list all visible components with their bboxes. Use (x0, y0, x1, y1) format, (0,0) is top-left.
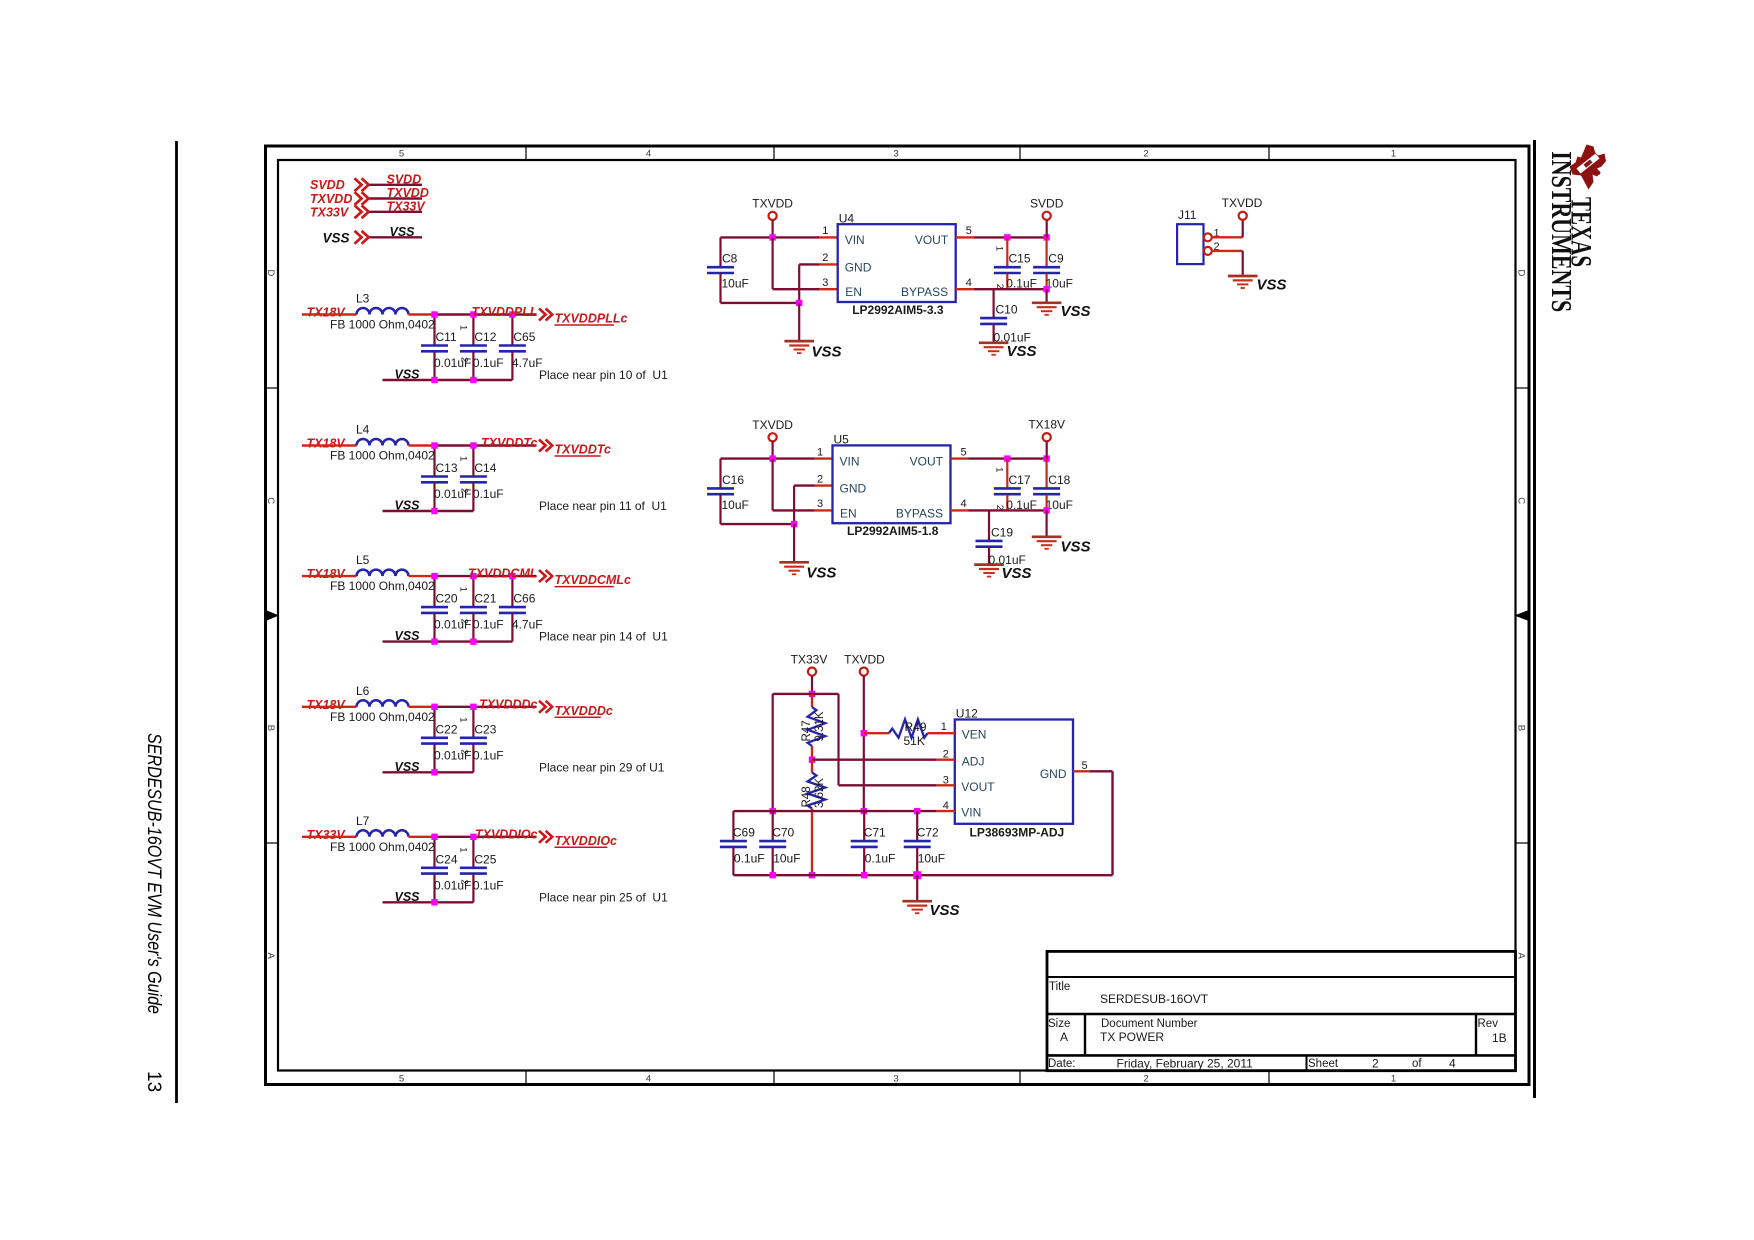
svg-text:2: 2 (459, 619, 470, 624)
svg-text:9.31K: 9.31K (814, 711, 826, 741)
svg-text:C25: C25 (474, 852, 496, 866)
svg-text:VSS: VSS (395, 890, 421, 904)
svg-text:SERDESUB-16OVT EVM User's Guid: SERDESUB-16OVT EVM User's Guide (143, 733, 164, 1014)
svg-text:U12: U12 (956, 707, 978, 721)
svg-text:D: D (265, 270, 276, 277)
svg-text:VOUT: VOUT (910, 454, 944, 468)
svg-text:VEN: VEN (962, 728, 987, 742)
svg-text:TXVDDCMLc: TXVDDCMLc (555, 573, 631, 587)
svg-text:13: 13 (143, 1071, 164, 1092)
svg-text:VSS: VSS (395, 629, 421, 643)
svg-text:4: 4 (1449, 1057, 1456, 1071)
svg-text:5: 5 (399, 149, 404, 160)
svg-text:TXVDDDc: TXVDDDc (555, 704, 613, 718)
svg-text:BYPASS: BYPASS (896, 506, 943, 520)
svg-text:VSS: VSS (323, 231, 350, 246)
svg-text:C23: C23 (474, 722, 496, 736)
svg-text:SVDD: SVDD (387, 172, 422, 186)
svg-text:2: 2 (459, 488, 470, 493)
svg-text:Friday, February 25, 2011: Friday, February 25, 2011 (1117, 1057, 1254, 1071)
svg-text:EN: EN (845, 285, 862, 299)
svg-text:2: 2 (459, 357, 470, 362)
svg-text:TXVDDTc: TXVDDTc (481, 436, 538, 450)
svg-text:3: 3 (817, 498, 823, 510)
svg-text:C71: C71 (864, 826, 886, 840)
svg-text:2: 2 (994, 505, 1005, 510)
svg-text:J11: J11 (1178, 208, 1197, 222)
svg-text:5: 5 (399, 1074, 404, 1085)
svg-text:0.1uF: 0.1uF (734, 852, 765, 866)
svg-text:2: 2 (1143, 149, 1148, 160)
svg-text:C9: C9 (1048, 252, 1064, 266)
svg-text:LP38693MP-ADJ: LP38693MP-ADJ (970, 826, 1065, 840)
svg-text:U5: U5 (834, 433, 850, 447)
svg-text:C24: C24 (436, 852, 458, 866)
svg-text:51K: 51K (904, 734, 925, 748)
svg-text:VSS: VSS (1002, 565, 1032, 582)
svg-text:TX33V: TX33V (387, 199, 427, 213)
svg-text:4: 4 (646, 1074, 651, 1085)
svg-text:1: 1 (458, 587, 469, 592)
svg-text:VSS: VSS (1007, 343, 1037, 360)
svg-text:TXVDD: TXVDD (310, 192, 352, 206)
svg-text:SERDESUB-16OVT: SERDESUB-16OVT (1100, 992, 1209, 1006)
svg-text:BYPASS: BYPASS (901, 285, 948, 299)
svg-text:Document Number: Document Number (1101, 1018, 1198, 1030)
svg-text:1: 1 (458, 456, 469, 461)
svg-text:GND: GND (845, 260, 872, 274)
svg-text:FB 1000 Ohm,0402: FB 1000 Ohm,0402 (330, 449, 435, 463)
svg-text:Title: Title (1049, 981, 1070, 993)
svg-text:FB 1000 Ohm,0402: FB 1000 Ohm,0402 (330, 579, 435, 593)
svg-text:LP2992AIM5-1.8: LP2992AIM5-1.8 (847, 524, 939, 538)
svg-text:1: 1 (993, 246, 1004, 251)
svg-text:C18: C18 (1048, 473, 1070, 487)
svg-text:VSS: VSS (930, 902, 960, 919)
svg-text:L6: L6 (356, 684, 370, 698)
svg-text:TX33V: TX33V (791, 653, 828, 667)
svg-text:C11: C11 (436, 330, 457, 344)
svg-text:R48: R48 (801, 786, 813, 807)
svg-text:TXVDDDc: TXVDDDc (479, 697, 537, 711)
svg-text:1: 1 (458, 717, 469, 722)
svg-text:C22: C22 (436, 722, 458, 736)
svg-text:TX33V: TX33V (310, 206, 350, 220)
svg-text:VSS: VSS (1257, 277, 1287, 294)
svg-text:TXVDDCML: TXVDDCML (468, 567, 537, 581)
svg-text:C21: C21 (474, 592, 496, 606)
svg-text:Place near pin 25 of U1: Place near pin 25 of U1 (539, 890, 668, 904)
svg-text:C16: C16 (722, 473, 744, 487)
svg-text:C72: C72 (917, 826, 939, 840)
svg-text:C13: C13 (436, 461, 458, 475)
svg-text:TXVDD: TXVDD (752, 418, 793, 432)
svg-text:B: B (265, 725, 276, 731)
svg-text:1: 1 (817, 446, 823, 458)
svg-text:C66: C66 (513, 592, 535, 606)
svg-text:C12: C12 (474, 330, 496, 344)
svg-text:R49: R49 (905, 720, 927, 734)
svg-text:4: 4 (966, 277, 972, 289)
svg-text:Place near pin 14 of U1: Place near pin 14 of U1 (539, 630, 668, 644)
svg-text:Date:: Date: (1048, 1058, 1076, 1070)
svg-text:R47: R47 (801, 720, 813, 741)
svg-text:ADJ: ADJ (962, 755, 985, 769)
svg-text:D: D (1516, 270, 1527, 277)
svg-text:TXVDD: TXVDD (844, 653, 885, 667)
svg-text:1: 1 (1391, 1074, 1396, 1085)
svg-text:FB 1000 Ohm,0402: FB 1000 Ohm,0402 (330, 840, 435, 854)
svg-text:C17: C17 (1009, 473, 1031, 487)
svg-text:TXVDDTc: TXVDDTc (555, 443, 612, 457)
svg-text:VSS: VSS (395, 499, 421, 513)
svg-text:B: B (1516, 725, 1527, 731)
svg-text:4: 4 (646, 149, 651, 160)
svg-text:Place near pin 29 of U1: Place near pin 29 of U1 (539, 760, 665, 774)
svg-text:L3: L3 (356, 292, 370, 306)
svg-text:C65: C65 (513, 330, 535, 344)
svg-text:0.1uF: 0.1uF (473, 487, 504, 501)
svg-text:0.1uF: 0.1uF (473, 356, 504, 370)
svg-text:1: 1 (458, 325, 469, 330)
svg-text:FB 1000 Ohm,0402: FB 1000 Ohm,0402 (330, 318, 435, 332)
svg-text:C14: C14 (474, 461, 496, 475)
svg-text:0.1uF: 0.1uF (865, 852, 896, 866)
svg-text:L4: L4 (356, 423, 370, 437)
svg-text:Size: Size (1048, 1018, 1070, 1030)
svg-text:A: A (1516, 953, 1527, 960)
svg-text:2: 2 (459, 749, 470, 754)
svg-text:GND: GND (840, 482, 867, 496)
svg-text:10uF: 10uF (722, 498, 749, 512)
svg-text:VSS: VSS (1061, 303, 1091, 320)
svg-text:2: 2 (994, 284, 1005, 289)
svg-text:TXVDDPLL: TXVDDPLL (472, 305, 538, 319)
svg-text:A: A (1060, 1030, 1068, 1044)
svg-text:C: C (265, 497, 276, 504)
svg-text:of: of (1412, 1058, 1422, 1070)
svg-text:C: C (1516, 497, 1527, 504)
svg-text:1B: 1B (1492, 1031, 1507, 1045)
svg-text:C20: C20 (436, 592, 458, 606)
svg-text:TXVDD: TXVDD (752, 196, 793, 210)
svg-text:VOUT: VOUT (915, 233, 949, 247)
svg-text:TX18V: TX18V (1028, 418, 1065, 432)
svg-text:INSTRUMENTS: INSTRUMENTS (1545, 151, 1576, 312)
svg-text:2: 2 (1372, 1057, 1379, 1071)
svg-text:VSS: VSS (395, 760, 421, 774)
svg-text:TXVDDIOc: TXVDDIOc (475, 827, 538, 841)
svg-text:10uF: 10uF (773, 852, 800, 866)
svg-text:4.7uF: 4.7uF (512, 356, 543, 370)
svg-text:4.7uF: 4.7uF (512, 618, 543, 632)
svg-text:VSS: VSS (1061, 539, 1091, 556)
svg-text:3: 3 (893, 1074, 898, 1085)
svg-text:SVDD: SVDD (310, 178, 345, 192)
svg-text:3: 3 (893, 149, 898, 160)
svg-text:C15: C15 (1009, 252, 1031, 266)
svg-text:VIN: VIN (961, 806, 981, 820)
svg-text:2: 2 (817, 473, 823, 485)
svg-text:VOUT: VOUT (961, 780, 995, 794)
svg-text:Sheet: Sheet (1308, 1058, 1339, 1070)
svg-text:VIN: VIN (845, 233, 865, 247)
svg-text:Rev: Rev (1478, 1018, 1499, 1030)
svg-text:A: A (265, 953, 276, 960)
svg-text:0.1uF: 0.1uF (473, 748, 504, 762)
svg-text:SVDD: SVDD (1030, 196, 1064, 210)
svg-text:4: 4 (961, 498, 967, 510)
svg-text:TXVDD: TXVDD (387, 186, 429, 200)
svg-text:Place near pin 11 of U1: Place near pin 11 of U1 (539, 499, 667, 513)
svg-text:1: 1 (1391, 149, 1396, 160)
svg-text:2: 2 (1143, 1074, 1148, 1085)
svg-text:C10: C10 (996, 303, 1018, 317)
svg-text:TX POWER: TX POWER (1100, 1030, 1164, 1044)
svg-text:0.1uF: 0.1uF (473, 618, 504, 632)
svg-text:1: 1 (458, 847, 469, 852)
svg-text:2: 2 (459, 879, 470, 884)
svg-text:5: 5 (966, 225, 972, 237)
svg-text:2: 2 (822, 252, 828, 264)
svg-text:C8: C8 (722, 252, 738, 266)
svg-text:TXVDD: TXVDD (1222, 196, 1263, 210)
svg-text:VSS: VSS (390, 225, 416, 239)
svg-text:10uF: 10uF (722, 277, 749, 291)
svg-text:U4: U4 (839, 211, 855, 225)
svg-text:L7: L7 (356, 814, 370, 828)
svg-text:VSS: VSS (806, 565, 836, 582)
svg-text:LP2992AIM5-3.3: LP2992AIM5-3.3 (852, 303, 944, 317)
svg-text:VSS: VSS (812, 343, 842, 360)
svg-text:GND: GND (1040, 767, 1067, 781)
svg-text:10uF: 10uF (918, 852, 945, 866)
svg-text:EN: EN (840, 506, 857, 520)
svg-text:Place near pin 10 of U1: Place near pin 10 of U1 (539, 368, 668, 382)
svg-text:3.62K: 3.62K (814, 778, 826, 808)
svg-text:1: 1 (993, 467, 1004, 472)
svg-text:TXVDDPLLc: TXVDDPLLc (555, 312, 628, 326)
svg-text:FB 1000 Ohm,0402: FB 1000 Ohm,0402 (330, 710, 435, 724)
svg-text:5: 5 (961, 446, 967, 458)
svg-text:0.1uF: 0.1uF (473, 878, 504, 892)
svg-text:C70: C70 (772, 826, 794, 840)
svg-text:L5: L5 (356, 553, 370, 567)
svg-text:VIN: VIN (840, 454, 860, 468)
svg-text:TXVDDIOc: TXVDDIOc (555, 834, 618, 848)
svg-text:1: 1 (941, 721, 947, 733)
svg-text:3: 3 (822, 277, 828, 289)
svg-text:C69: C69 (733, 826, 755, 840)
svg-text:1: 1 (822, 225, 828, 237)
svg-text:VSS: VSS (395, 368, 421, 382)
svg-text:C19: C19 (991, 526, 1013, 540)
